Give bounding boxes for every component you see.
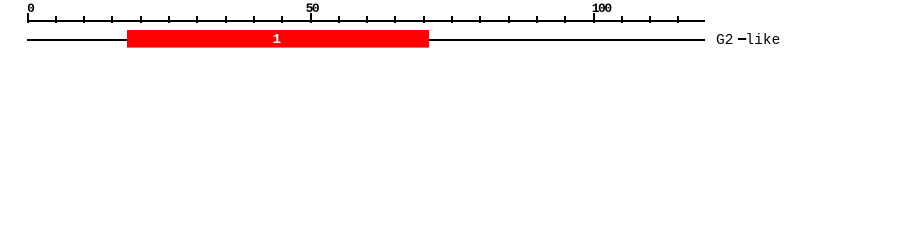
minor tick 70 xyxy=(423,16,425,23)
sequence name hyphen xyxy=(738,38,746,40)
minor tick 115 xyxy=(677,16,679,23)
minor tick 40 xyxy=(253,16,255,23)
svg-text:G2: G2 xyxy=(716,33,733,49)
minor tick 110 xyxy=(649,16,651,23)
domain box 1 (red) xyxy=(127,30,429,48)
minor tick 5 xyxy=(55,16,57,23)
major tick 100 xyxy=(593,13,595,23)
minor tick 80 xyxy=(479,16,481,23)
svg-text:100: 100 xyxy=(592,1,613,16)
sequence backbone line xyxy=(27,39,705,41)
ruler axis line xyxy=(27,20,705,22)
minor tick 85 xyxy=(508,16,510,23)
minor tick 10 xyxy=(83,16,85,23)
svg-text:like: like xyxy=(746,33,781,49)
minor tick 25 xyxy=(168,16,170,23)
svg-text:0: 0 xyxy=(27,1,35,16)
minor tick 95 xyxy=(564,16,566,23)
minor tick 65 xyxy=(394,16,396,23)
svg-text:1: 1 xyxy=(273,32,281,48)
minor tick 15 xyxy=(111,16,113,23)
minor tick 75 xyxy=(451,16,453,23)
major tick 50 xyxy=(310,13,312,23)
minor tick 45 xyxy=(281,16,283,23)
svg-text:50: 50 xyxy=(306,1,320,16)
minor tick 90 xyxy=(536,16,538,23)
minor tick 60 xyxy=(366,16,368,23)
minor tick 35 xyxy=(225,16,227,23)
minor tick 55 xyxy=(338,16,340,23)
minor tick 20 xyxy=(140,16,142,23)
major tick 0 xyxy=(27,13,29,23)
minor tick 105 xyxy=(621,16,623,23)
minor tick 30 xyxy=(196,16,198,23)
